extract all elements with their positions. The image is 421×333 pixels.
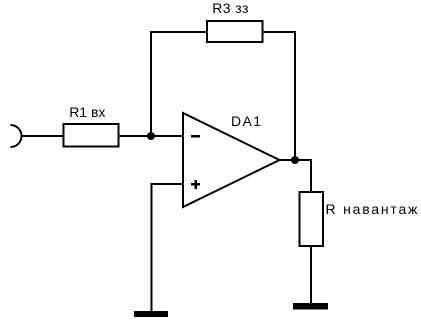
wire op-amp output to node B xyxy=(279,159,311,161)
wire node A up to feedback xyxy=(150,31,152,136)
op-amp DA1 non-inverting pin plus sign xyxy=(191,180,200,189)
resistor R load xyxy=(300,192,324,246)
wire feedback top left to R3 xyxy=(150,31,207,33)
op-amp DA1 inverting pin minus sign xyxy=(191,135,200,138)
label R навантаж xyxy=(326,201,420,217)
svg-text:R1 вх: R1 вх xyxy=(69,104,105,120)
op-amp DA1 triangle xyxy=(183,113,280,207)
wire input to R1 xyxy=(22,135,64,137)
node B output junction dot xyxy=(291,156,299,164)
wire load resistor to ground xyxy=(310,246,312,304)
svg-text:R3 зз: R3 зз xyxy=(212,0,248,16)
wire R3 to output vertical xyxy=(263,31,297,33)
svg-text:R навантаж: R навантаж xyxy=(326,201,420,217)
wire plus input down to ground xyxy=(151,183,153,312)
wire R1 to op-amp inverting input xyxy=(119,135,184,137)
ground left xyxy=(134,311,168,317)
ground right xyxy=(293,303,328,310)
wire op-amp plus input left xyxy=(151,183,184,185)
svg-text:DA1: DA1 xyxy=(231,113,262,129)
wire output down to load resistor xyxy=(310,159,312,192)
input connector X1 xyxy=(11,125,22,147)
label R3 зз xyxy=(212,0,248,16)
label DA1 xyxy=(231,113,262,129)
resistor R1 xyxy=(64,124,119,147)
label R1 вх xyxy=(69,104,105,120)
resistor R3 xyxy=(207,21,263,42)
wire feedback down to output node xyxy=(294,31,296,160)
node A junction dot xyxy=(147,132,155,140)
